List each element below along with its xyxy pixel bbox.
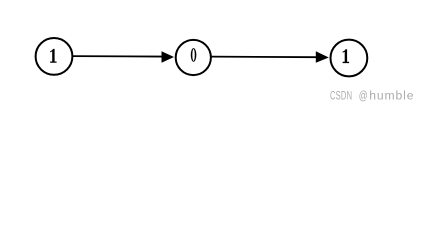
wire (edge 1 line) [73, 55, 163, 57]
label 1 (right) [343, 49, 350, 63]
label 1 (left) [50, 49, 57, 63]
wire (edge 2 line) [211, 56, 316, 59]
arrowhead (edge 2) [316, 51, 329, 63]
svg-text:@: @ [359, 89, 368, 103]
node 1 (right circle) [331, 40, 368, 77]
node 1 (left circle) [36, 38, 73, 75]
watermark CSDN [330, 90, 352, 103]
watermark @ sign [359, 89, 368, 103]
node 0 (middle circle) [176, 40, 211, 75]
svg-text:CSDN: CSDN [330, 90, 352, 103]
svg-text:humble: humble [369, 89, 414, 103]
arrowhead (edge 1) [162, 51, 175, 62]
label 0 (middle) [191, 48, 197, 62]
